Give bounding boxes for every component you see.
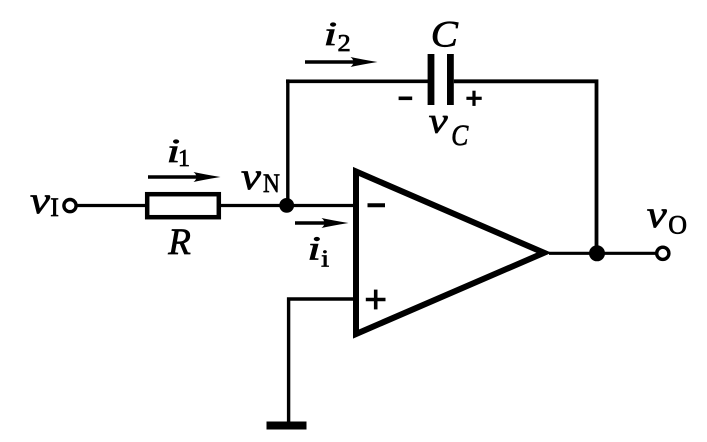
- wire non-inverting input to ground: [289, 299, 356, 424]
- capacitor C: [431, 54, 450, 105]
- capacitor minus polarity: [399, 97, 413, 101]
- current arrow i2: [305, 57, 378, 67]
- ground: [267, 422, 307, 430]
- node vO output terminal: [657, 247, 669, 259]
- wire node N up to feedback: [286, 79, 289, 205]
- svg-text:i: i: [321, 245, 329, 272]
- op-amp U1: [356, 172, 544, 335]
- svg-text:v: v: [30, 179, 50, 221]
- capacitor plus polarity: [466, 91, 481, 106]
- label vO: [647, 193, 687, 239]
- svg-text:N: N: [263, 170, 280, 198]
- node output junction dot: [589, 245, 605, 261]
- svg-text:v: v: [429, 101, 448, 141]
- wire op-amp output: [549, 252, 656, 255]
- svg-text:O: O: [668, 210, 687, 239]
- svg-text:i: i: [324, 15, 338, 53]
- node N junction dot: [279, 198, 294, 213]
- label vN: [241, 155, 280, 198]
- resistor R: [147, 194, 219, 217]
- label i2: [324, 15, 351, 56]
- op-amp inverting input sign: [368, 203, 386, 207]
- wire feedback top right: [454, 81, 597, 253]
- svg-text:v: v: [241, 155, 261, 197]
- wire resistor to node N: [221, 204, 287, 207]
- svg-text:C: C: [431, 14, 459, 55]
- label vC: [429, 101, 469, 153]
- svg-text:1: 1: [178, 146, 190, 172]
- label ii: [307, 230, 329, 272]
- op-amp non-inverting input sign: [366, 290, 386, 310]
- svg-text:R: R: [167, 222, 191, 263]
- svg-text:2: 2: [338, 31, 351, 57]
- wire input to resistor: [77, 204, 147, 207]
- label vI: [30, 179, 59, 222]
- wire node N to inverting input: [293, 204, 356, 207]
- svg-text:C: C: [451, 119, 468, 152]
- svg-text:i: i: [307, 230, 321, 268]
- node vI input terminal: [64, 200, 76, 212]
- current arrow i1: [148, 172, 221, 182]
- label i1: [167, 132, 191, 172]
- svg-text:I: I: [50, 193, 59, 222]
- current arrow ii: [295, 218, 349, 228]
- wire feedback top left: [286, 80, 428, 84]
- svg-text:v: v: [647, 193, 667, 235]
